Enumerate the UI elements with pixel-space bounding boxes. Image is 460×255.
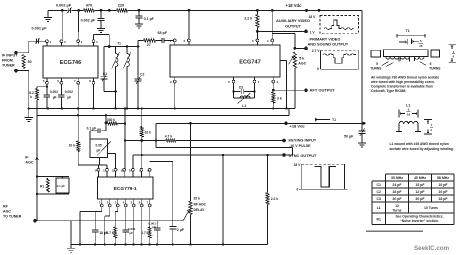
svg-text:L1 wound with #26 AWG tinned: L1 wound with #26 AWG tinned nylon: [390, 142, 449, 146]
svg-text:TURNS: TURNS: [370, 67, 382, 71]
IC U1 ECG746: [43, 46, 98, 78]
terminal keying input: [282, 139, 286, 143]
svg-text:µF: µF: [97, 149, 101, 153]
svg-text:12: 12: [112, 168, 115, 172]
pin 12 U3: [114, 168, 117, 171]
wire tank to C2: [115, 92, 117, 109]
svg-text:50 µF: 50 µF: [344, 135, 354, 139]
capacitor C1 variable: [103, 47, 105, 77]
dimension 1/4 right: [449, 43, 456, 45]
ground right: [358, 142, 366, 144]
wire +18V top rail: [48, 9, 67, 11]
pin 13 U3: [106, 168, 109, 171]
svg-text:OUTPUT: OUTPUT: [285, 23, 302, 28]
svg-text:0: 0: [317, 67, 319, 71]
wire pin14 up: [97, 165, 99, 168]
pin 3 U3: [116, 204, 119, 207]
waveform aux trace: [324, 20, 353, 30]
svg-text:k: k: [30, 95, 32, 99]
svg-text:10: 10: [129, 168, 132, 172]
wire pin7 drop + resistor 4.7k: [149, 207, 151, 227]
svg-text:0.1 µF: 0.1 µF: [87, 126, 96, 130]
svg-text:4.7 k: 4.7 k: [141, 231, 148, 235]
resistor 10k left: [77, 115, 79, 141]
wire pin12 up: [115, 154, 117, 169]
pin 7: [77, 81, 80, 84]
svg-text:µF: µF: [67, 96, 71, 100]
wire rail to pin1 ECG747: [188, 9, 191, 12]
svg-text:16: 16: [419, 44, 423, 48]
pin 8: [92, 81, 95, 84]
terminal auxiliary video output: [304, 30, 308, 34]
svg-text:TUNER: TUNER: [2, 64, 15, 68]
capacitor 50 uF: [361, 122, 363, 131]
wire pin4 to rail: [271, 9, 274, 12]
svg-text:AFT OUTPUT: AFT OUTPUT: [310, 88, 336, 93]
svg-text:C1: C1: [377, 183, 381, 187]
svg-text:0.1 µF: 0.1 µF: [144, 17, 155, 21]
svg-text:18 V: 18 V: [294, 163, 302, 167]
pin 11 U3: [123, 168, 126, 171]
svg-text:ECG779-1: ECG779-1: [114, 186, 137, 192]
wire AFT output: [273, 89, 306, 91]
capacitor C3: [233, 83, 235, 98]
svg-text:FROM: FROM: [2, 59, 13, 63]
svg-text:20 k: 20 k: [194, 197, 201, 201]
wire pin13 up: [106, 165, 108, 168]
inductor L1 coil: [398, 124, 400, 132]
svg-text:T1: T1: [332, 118, 336, 122]
svg-text:ECG747: ECG747: [239, 60, 260, 66]
terminal RF AGC: [33, 219, 37, 223]
pin 4: [271, 39, 274, 42]
svg-text:11: 11: [120, 168, 123, 172]
svg-text:-10 V PULSE: -10 V PULSE: [289, 144, 311, 148]
wire pin3 drop + resistor 4.7k: [117, 207, 119, 212]
scan artifact line: [366, 230, 423, 232]
svg-text:AGC: AGC: [3, 210, 11, 214]
capacitor 0.001 uF bypass: [156, 221, 158, 228]
resistor 27: [138, 39, 144, 41]
svg-text:µF: µF: [152, 225, 156, 229]
svg-text:24 pF: 24 pF: [392, 183, 402, 187]
wire pin2 drop: [109, 207, 111, 216]
svg-text:T1: T1: [117, 42, 121, 46]
svg-text:RF: RF: [3, 205, 9, 209]
waveform box aux: [320, 16, 359, 34]
node aux output: [256, 10, 258, 14]
svg-text:L1: L1: [377, 206, 381, 210]
transformer T1 core right: [431, 50, 439, 57]
wire pin2 ECG746 to rail: [77, 9, 80, 12]
pin 4 U3: [124, 204, 127, 207]
svg-text:5 k: 5 k: [299, 57, 304, 61]
wire pin4 drop + capacitor 0.001 uF: [125, 207, 127, 230]
svg-text:+18 Vdc: +18 Vdc: [286, 3, 303, 8]
wire ground bus bottom: [71, 244, 268, 246]
svg-text:5: 5: [420, 39, 422, 43]
wire ECG747 side pin down: [280, 60, 287, 62]
wire pin8 U3 loop: [150, 161, 173, 163]
svg-text:RF AGC: RF AGC: [194, 202, 207, 206]
svg-text:TURNS: TURNS: [429, 67, 441, 71]
svg-text:µF: µF: [53, 96, 57, 100]
arrow to AGC delay pot: [183, 211, 189, 221]
resistor 2.2k sync: [267, 155, 269, 193]
wire pin3 ECG746 to rail: [61, 9, 64, 12]
svg-text:SYNC OUTPUT: SYNC OUTPUT: [289, 153, 318, 158]
resistor 10k keying: [141, 109, 143, 127]
svg-text:0.05: 0.05: [96, 144, 102, 148]
svg-text:4.7 k: 4.7 k: [106, 231, 113, 235]
resistor 8.2k: [46, 86, 48, 88]
resistor R1: [36, 175, 38, 177]
pin 5: [46, 81, 49, 84]
svg-text:C1: C1: [103, 72, 107, 76]
wire AGC bus: [37, 114, 289, 116]
ground: [135, 23, 143, 25]
svg-text:18 V: 18 V: [309, 15, 317, 19]
svg-text:0.002 µF: 0.002 µF: [81, 18, 96, 22]
terminal IF input bottom: [14, 69, 18, 73]
svg-text:DELAY: DELAY: [194, 208, 206, 212]
wire mid line: [156, 147, 293, 149]
arrow to T1: [315, 119, 330, 121]
wire pin6 drop: [141, 207, 143, 245]
pin 5: [256, 39, 259, 42]
pin 5 U3: [132, 204, 135, 207]
wire pin5 drop: [133, 207, 135, 245]
svg-text:12: 12: [395, 204, 399, 208]
capacitor 0.002 uF pin5: [46, 84, 48, 94]
svg-text:C2: C2: [140, 73, 144, 77]
pin 14 U3: [97, 168, 100, 171]
capacitor 0.1 uF: [105, 123, 107, 131]
svg-text:50: 50: [28, 60, 32, 64]
transformer T1 winding A: [115, 47, 117, 54]
pin 2: [188, 39, 191, 42]
svg-text:3 k: 3 k: [277, 96, 282, 100]
pin 2 U3: [108, 204, 111, 207]
wire +18V feed line: [156, 122, 362, 124]
ground top-left: [47, 10, 49, 17]
wire pin jog left drop: [80, 211, 95, 213]
waveform box keying: [300, 164, 302, 189]
pin 3b: [272, 80, 275, 83]
dimension 1/4 L1: [424, 119, 432, 121]
capacitor 0.001 uF coupling: [35, 39, 37, 44]
dimension 3/16: [398, 110, 400, 118]
wire sync ground leg: [222, 155, 224, 245]
pin 7 U3: [148, 204, 151, 207]
svg-text:14: 14: [95, 168, 98, 172]
svg-text:C2: C2: [377, 190, 381, 194]
wire IF AGC vertical with arrow: [36, 115, 38, 221]
pin 1 U3: [100, 204, 103, 207]
ground: [97, 28, 105, 30]
IC U3 ECG779-1: [98, 177, 154, 199]
resistor 2.2k top: [256, 15, 259, 28]
wire pin7 down: [77, 84, 79, 141]
svg-text:KEYING INPUT: KEYING INPUT: [289, 138, 317, 143]
svg-text:27: 27: [147, 43, 151, 47]
pin 6 U3: [140, 204, 143, 207]
svg-text:acetate wire tuned by adjustin: acetate wire tuned by adjusting winding.: [390, 147, 454, 151]
svg-text:“Noise Inverter” section.: “Noise Inverter” section.: [400, 219, 439, 223]
svg-text:+18 Vdc: +18 Vdc: [290, 124, 306, 129]
svg-text:Coilcraft, Type RK386.: Coilcraft, Type RK386.: [371, 89, 406, 93]
node primary output: [294, 47, 297, 50]
wire main bus: [28, 108, 295, 110]
terminal primary video output: [304, 47, 308, 51]
transformer T1 core left: [371, 50, 381, 57]
potentiometer 5k AGC: [293, 52, 296, 68]
pin 8 U3: [148, 168, 151, 171]
pin 2b: [232, 80, 235, 83]
pin 7b: [253, 80, 256, 83]
wire sync line: [133, 154, 284, 156]
terminal IF input top: [14, 51, 18, 55]
wire RF AGC line: [35, 220, 183, 222]
capacitor C2 variable: [137, 45, 140, 48]
svg-text:470: 470: [86, 4, 92, 8]
svg-text:AGC: AGC: [26, 161, 34, 165]
capacitor 0.002 uF on rail: [67, 8, 69, 13]
ground bottom left: [70, 245, 72, 249]
pin 6: [60, 81, 63, 84]
svg-text:R1: R1: [40, 185, 44, 189]
waveform box primary: [320, 50, 322, 69]
waveform keying trace: [315, 167, 336, 187]
svg-text:10 Turns: 10 Turns: [424, 206, 438, 210]
pin 1: [173, 39, 176, 42]
node tank top: [104, 46, 138, 48]
ground bus stub: [28, 109, 30, 117]
svg-text:10 pF: 10 pF: [438, 183, 448, 187]
svg-text:13: 13: [103, 168, 106, 172]
resistor 220: [108, 9, 111, 12]
capacitor 0.002 uF pin6: [60, 84, 62, 94]
svg-text:15 pF: 15 pF: [415, 183, 425, 187]
resistor 50: [22, 55, 25, 69]
pin 9: [173, 80, 176, 83]
capacitor 0.1 uF bypass: [138, 9, 141, 12]
transformer T1 core middle: [384, 50, 428, 57]
svg-text:2.7 V: 2.7 V: [312, 49, 320, 53]
waveform primary trace: [323, 54, 356, 64]
svg-text:30 pF: 30 pF: [392, 197, 402, 201]
pin 2: [77, 40, 80, 43]
svg-text:C3: C3: [377, 197, 381, 201]
svg-text:0.1 µF: 0.1 µF: [57, 184, 65, 188]
svg-text:AGC: AGC: [298, 62, 306, 66]
svg-text:Complete transformer is availa: Complete transformer is available from: [371, 85, 433, 89]
svg-text:0.002 µF: 0.002 µF: [56, 4, 72, 8]
svg-text:2 µF: 2 µF: [177, 228, 185, 232]
svg-text:35 MHz: 35 MHz: [391, 176, 403, 180]
svg-text:See Operating Characteristics,: See Operating Characteristics,: [395, 215, 443, 219]
wire pin1 up: [93, 35, 95, 40]
pin 9 U3: [140, 168, 143, 171]
svg-text:58 MHz: 58 MHz: [437, 176, 449, 180]
svg-text:4.7 k: 4.7 k: [165, 135, 173, 139]
capacitor 2 uF: [169, 226, 176, 228]
svg-text:0.001 µF: 0.001 µF: [32, 27, 48, 31]
svg-text:T1: T1: [406, 29, 410, 33]
wire pin1 drop + capacitor 18 pF: [101, 207, 103, 212]
transformer T1 winding B: [126, 45, 129, 48]
svg-text:µF: µF: [129, 231, 133, 235]
IC U2 ECG747: [170, 45, 280, 77]
svg-text:10 k: 10 k: [69, 144, 76, 148]
svg-text:12 pF: 12 pF: [415, 190, 425, 194]
svg-text:0.002: 0.002: [65, 90, 73, 94]
svg-text:1 V: 1 V: [310, 31, 316, 35]
wire input to coupling cap: [24, 52, 29, 54]
pin 3: [60, 40, 63, 43]
svg-text:220: 220: [118, 4, 124, 8]
terminal AFT output: [304, 88, 308, 92]
capacitor 0.002 uF bypass: [100, 9, 103, 12]
svg-text:45 MHz: 45 MHz: [414, 176, 426, 180]
svg-text:All windings #30 AWG tinned ny: All windings #30 AWG tinned nylon acetat…: [371, 76, 439, 80]
dimension 5/16: [397, 35, 425, 37]
table component values: [386, 173, 455, 175]
svg-text:0: 0: [297, 188, 299, 192]
svg-text:68 pF: 68 pF: [158, 31, 168, 35]
svg-text:TO TUNER: TO TUNER: [3, 215, 22, 219]
wire pin4 over to pot: [271, 34, 273, 40]
wire pin9 to bus: [174, 83, 176, 109]
svg-text:ECG746: ECG746: [60, 60, 81, 66]
capacitor 68 pF: [156, 39, 162, 41]
capacitor 0.1 uF box: [61, 177, 63, 178]
svg-text:2.2 k: 2.2 k: [271, 197, 279, 201]
resistor 3k: [272, 83, 274, 90]
svg-text:18 pF: 18 pF: [392, 190, 402, 194]
svg-text:SeekIC.com: SeekIC.com: [414, 245, 450, 252]
svg-text:330 k: 330 k: [107, 118, 115, 122]
wire pin11 up to bus and keying: [124, 109, 126, 169]
svg-text:30 pF: 30 pF: [415, 197, 425, 201]
wire pin10 up to sync: [132, 155, 134, 168]
svg-text:wire tuned with high permeabil: wire tuned with high permeability cores.: [370, 80, 435, 84]
svg-text:C3: C3: [239, 85, 243, 89]
svg-text:R1: R1: [377, 218, 381, 222]
resistor 470: [84, 9, 95, 12]
pin 4: [46, 40, 49, 43]
wire +18 feed down: [155, 123, 157, 147]
pin 10 U3: [132, 168, 135, 171]
resistor 330k: [105, 115, 107, 122]
inductor L1 variable: [234, 97, 255, 99]
svg-text:18 pF: 18 pF: [438, 197, 448, 201]
capacitor 0.05 uF box: [90, 139, 108, 158]
pin 1: [92, 40, 95, 43]
wire pin8 down: [93, 84, 95, 108]
wire keying line + resistor 4.7k: [125, 140, 166, 142]
svg-text:AUXILIARY VIDEO: AUXILIARY VIDEO: [276, 18, 310, 23]
svg-text:AND SOUND OUTPUT: AND SOUND OUTPUT: [308, 42, 349, 47]
wire rail right drop: [361, 10, 363, 121]
T1 winding bumps: [386, 57, 399, 62]
potentiometer 20k RF AGC delay: [190, 123, 192, 201]
svg-text:PRIMARY VIDEO: PRIMARY VIDEO: [310, 36, 341, 41]
svg-text:16: 16: [407, 113, 411, 117]
svg-text:10 pF: 10 pF: [438, 190, 448, 194]
svg-text:Turns: Turns: [392, 209, 401, 213]
svg-text:10 k: 10 k: [145, 130, 152, 134]
wire input to AGC bus: [24, 70, 29, 72]
svg-text:0.002: 0.002: [50, 90, 58, 94]
svg-text:L1: L1: [242, 104, 246, 108]
svg-text:2.2 k: 2.2 k: [244, 16, 252, 20]
terminal sync output: [282, 153, 286, 157]
